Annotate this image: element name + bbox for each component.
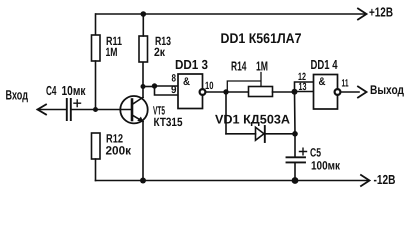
resistor R14 xyxy=(249,87,273,97)
svg-text:9: 9 xyxy=(171,84,177,96)
wire collector node to gate inputs xyxy=(143,86,155,88)
wire C5 to bottom rail xyxy=(294,162,296,180)
wire collector up to R13 xyxy=(142,62,144,97)
input arrow xyxy=(38,105,47,115)
node collector junction xyxy=(141,84,146,89)
R14 leader bracket xyxy=(227,73,261,91)
svg-text:&: & xyxy=(319,76,326,88)
svg-text:С5: С5 xyxy=(310,146,321,160)
svg-text:КТ315: КТ315 xyxy=(154,115,183,129)
wire VD1 cathode to node xyxy=(265,133,295,135)
output arrow xyxy=(358,87,367,98)
wire node to C5 xyxy=(294,134,296,157)
wire C4 to transistor base xyxy=(71,109,132,111)
capacitor C5 plates xyxy=(287,156,306,158)
svg-text:2к: 2к xyxy=(154,45,166,59)
wire emitter down to bottom rail xyxy=(142,122,144,181)
diode VD1 xyxy=(256,127,265,140)
wire to pin 12 xyxy=(295,82,314,92)
svg-text:8: 8 xyxy=(172,73,177,85)
svg-text:+12В: +12В xyxy=(369,4,393,19)
wire to pin 13 xyxy=(295,91,314,93)
svg-text:Вход: Вход xyxy=(6,87,29,102)
wire pin10 to R14 node xyxy=(205,91,226,93)
svg-text:VD1 КД503А: VD1 КД503А xyxy=(215,113,290,127)
C4 polarity plus xyxy=(74,100,81,107)
wire to pin 8 xyxy=(155,85,179,87)
svg-text:13: 13 xyxy=(299,81,307,93)
svg-text:10: 10 xyxy=(205,80,214,92)
resistor R13 xyxy=(139,36,148,62)
svg-text:200к: 200к xyxy=(106,144,132,158)
svg-text:С4: С4 xyxy=(46,83,57,98)
DD1.3 output bubble pin 10 xyxy=(200,89,206,95)
node R13 top rail junction xyxy=(141,11,147,17)
wire to pin 9 xyxy=(155,86,179,95)
svg-text:DD1 3: DD1 3 xyxy=(175,57,208,72)
wire R12 to bottom rail xyxy=(95,159,97,181)
svg-text:Выход: Выход xyxy=(370,83,404,97)
node VD1 C5 junction xyxy=(292,131,298,137)
wire R13 to top rail xyxy=(142,14,144,36)
wire bottom -12V rail xyxy=(96,180,368,182)
svg-text:1М: 1М xyxy=(256,59,268,74)
gate DD1.4 xyxy=(314,75,338,110)
wire junction down to VD1 node xyxy=(294,92,297,134)
node emitter rail junction xyxy=(140,178,146,184)
svg-text:1М: 1М xyxy=(106,45,118,59)
wire VD1 branch down xyxy=(225,92,227,134)
svg-text:DD1 К561ЛА7: DD1 К561ЛА7 xyxy=(221,30,302,46)
node R14 VD1 junction xyxy=(223,89,228,94)
transistor VT5 xyxy=(120,96,147,123)
svg-text:DD1 4: DD1 4 xyxy=(311,57,339,72)
resistor R12 xyxy=(92,133,101,159)
svg-text:-12В: -12В xyxy=(374,172,396,187)
resistor R11 xyxy=(92,35,101,61)
+12V arrow xyxy=(358,9,367,20)
svg-text:&: & xyxy=(183,76,190,88)
gate DD1.3 xyxy=(178,74,203,109)
wire to VD1 anode xyxy=(226,133,256,135)
node C5 rail junction xyxy=(292,177,299,184)
-12V arrow xyxy=(361,175,370,186)
wire R11 to base node xyxy=(95,61,97,110)
node DD1.3 input junction xyxy=(152,83,157,88)
svg-text:11: 11 xyxy=(342,77,349,89)
node DD1.4 input junction xyxy=(292,89,298,95)
wire top +12V rail xyxy=(96,13,365,15)
wire output to arrow xyxy=(340,91,359,93)
svg-text:R14: R14 xyxy=(231,59,247,74)
wire R14 to DD1.4 inputs xyxy=(273,91,295,93)
node base junction xyxy=(93,107,98,112)
DD1.4 output bubble pin 11 xyxy=(335,89,341,95)
wire R11 to top rail xyxy=(95,14,97,35)
svg-text:10мк: 10мк xyxy=(62,83,86,98)
svg-text:100мк: 100мк xyxy=(311,159,341,173)
wire node to R14 xyxy=(226,91,249,93)
wire input to C4 xyxy=(38,109,67,111)
C5 polarity plus xyxy=(300,148,307,155)
capacitor C4 xyxy=(67,99,71,120)
